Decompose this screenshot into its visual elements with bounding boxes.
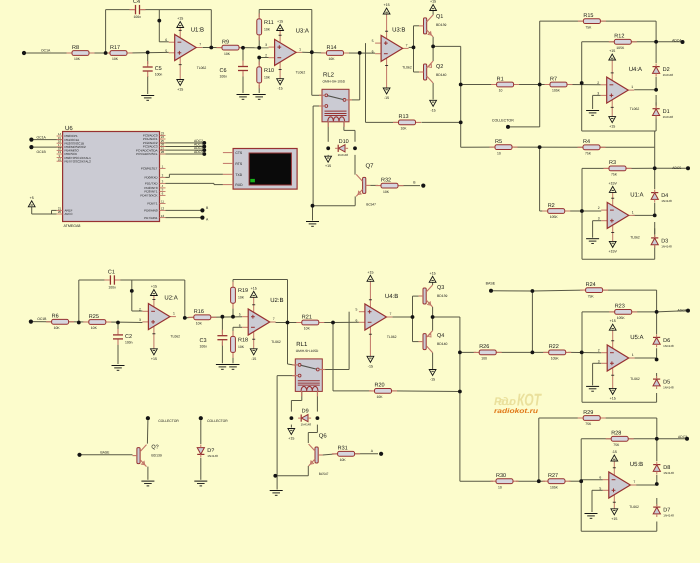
svg-text:10K: 10K — [401, 127, 408, 131]
svg-text:1N4148: 1N4148 — [663, 471, 674, 475]
svg-text:TL062: TL062 — [630, 235, 640, 239]
svg-text:105K: 105K — [550, 215, 559, 219]
svg-text:105K: 105K — [550, 485, 559, 489]
svg-text:100n: 100n — [108, 286, 116, 290]
svg-text:ADC5: ADC5 — [194, 150, 203, 154]
svg-text:+15: +15 — [151, 357, 157, 361]
svg-text:PB7/TOSC2/XTAL2: PB7/TOSC2/XTAL2 — [65, 159, 92, 163]
svg-text:+15: +15 — [384, 3, 390, 7]
svg-text:RTS: RTS — [235, 162, 242, 166]
svg-text:U2:A: U2:A — [164, 295, 177, 302]
svg-text:U2:B: U2:B — [270, 297, 283, 304]
svg-text:COLLECTOR: COLLECTOR — [207, 419, 228, 423]
svg-text:-15: -15 — [430, 108, 435, 112]
svg-text:5: 5 — [165, 49, 167, 53]
svg-text:10K: 10K — [238, 345, 245, 349]
svg-text:+15: +15 — [610, 319, 616, 323]
svg-text:КОТ: КОТ — [517, 391, 542, 410]
svg-text:U3:A: U3:A — [296, 27, 309, 34]
svg-text:Q4: Q4 — [437, 333, 444, 339]
svg-text:3: 3 — [597, 91, 599, 95]
svg-text:R16: R16 — [194, 309, 204, 315]
svg-text:5: 5 — [355, 308, 357, 312]
svg-text:R3: R3 — [609, 160, 616, 166]
svg-text:10K: 10K — [264, 75, 271, 79]
svg-text:TL062: TL062 — [402, 65, 412, 69]
svg-text:R26: R26 — [479, 344, 489, 350]
svg-text:BC547: BC547 — [319, 472, 329, 476]
svg-text:Q3: Q3 — [437, 285, 444, 291]
svg-text:75K: 75K — [611, 173, 618, 177]
svg-text:R10: R10 — [264, 68, 274, 74]
svg-text:10: 10 — [497, 151, 501, 155]
svg-text:R18: R18 — [238, 337, 248, 343]
svg-text:R32: R32 — [381, 177, 391, 183]
svg-text:10: 10 — [58, 157, 62, 161]
svg-text:PD7/AIN1: PD7/AIN1 — [144, 216, 158, 220]
svg-text:105K: 105K — [617, 316, 626, 320]
svg-text:10: 10 — [498, 485, 502, 489]
svg-text:R4: R4 — [583, 139, 590, 145]
svg-text:+5: +5 — [30, 196, 34, 200]
svg-text:OC1B: OC1B — [37, 150, 47, 154]
svg-text:5: 5 — [239, 313, 241, 317]
svg-text:R23: R23 — [615, 304, 625, 310]
svg-text:U1:B: U1:B — [191, 27, 204, 34]
svg-text:TL062: TL062 — [170, 335, 180, 339]
svg-text:7: 7 — [406, 43, 408, 47]
svg-text:1: 1 — [632, 210, 634, 214]
svg-text:10K: 10K — [54, 326, 61, 330]
svg-text:+15V: +15V — [608, 181, 617, 185]
svg-text:TL062: TL062 — [197, 66, 207, 70]
svg-text:C3: C3 — [200, 338, 207, 344]
svg-text:+15: +15 — [277, 20, 283, 24]
svg-text:U1:A: U1:A — [630, 191, 643, 198]
svg-text:R25: R25 — [89, 314, 99, 320]
svg-text:BASE: BASE — [100, 451, 110, 455]
svg-text:+15: +15 — [177, 88, 183, 92]
svg-text:PD1/TXD: PD1/TXD — [145, 182, 159, 186]
svg-text:-15: -15 — [612, 450, 617, 454]
svg-text:-15: -15 — [277, 87, 282, 91]
svg-text:PC6/RESET: PC6/RESET — [141, 167, 158, 171]
svg-text:100n: 100n — [155, 73, 163, 77]
svg-text:100n: 100n — [125, 340, 133, 344]
svg-text:R7: R7 — [550, 76, 557, 82]
svg-text:2: 2 — [265, 54, 267, 58]
svg-text:R14: R14 — [327, 45, 337, 51]
svg-text:+15: +15 — [611, 517, 617, 521]
svg-text:BD139: BD139 — [437, 294, 447, 298]
svg-text:R20: R20 — [375, 383, 385, 389]
svg-text:Q2: Q2 — [436, 64, 443, 70]
svg-text:1: 1 — [632, 353, 634, 357]
svg-text:OMIH-SH-105D: OMIH-SH-105D — [296, 349, 319, 353]
svg-text:75K: 75K — [613, 443, 620, 447]
svg-text:10K: 10K — [329, 57, 336, 61]
svg-text:R8: R8 — [72, 45, 79, 51]
svg-text:R12: R12 — [614, 34, 624, 40]
svg-text:105K: 105K — [552, 89, 561, 93]
svg-text:PD4/T0/XCK: PD4/T0/XCK — [140, 194, 157, 198]
svg-text:1N4148: 1N4148 — [661, 244, 672, 248]
svg-text:-15: -15 — [368, 364, 373, 368]
svg-text:2: 2 — [139, 307, 141, 311]
svg-text:radiokot.ru: radiokot.ru — [494, 408, 539, 415]
svg-text:R11: R11 — [264, 20, 274, 26]
svg-text:R6: R6 — [52, 314, 59, 320]
svg-text:R1: R1 — [497, 76, 504, 82]
svg-text:10K: 10K — [74, 57, 81, 61]
svg-text:Q6: Q6 — [319, 433, 328, 440]
svg-text:D10: D10 — [339, 139, 349, 145]
svg-text:5: 5 — [372, 39, 374, 43]
svg-text:PC5/ADC5/SCL: PC5/ADC5/SCL — [136, 152, 158, 156]
svg-text:7: 7 — [273, 317, 275, 321]
svg-text:BD139: BD139 — [436, 23, 446, 27]
svg-text:+15: +15 — [609, 49, 615, 53]
svg-text:Q7: Q7 — [366, 163, 375, 170]
svg-text:1N4148: 1N4148 — [661, 199, 672, 203]
svg-text:10K: 10K — [91, 326, 98, 330]
svg-text:+15: +15 — [430, 271, 436, 275]
svg-text:1: 1 — [173, 312, 175, 316]
svg-text:105K: 105K — [551, 357, 560, 361]
svg-text:U4:A: U4:A — [629, 66, 642, 73]
svg-text:1N4148: 1N4148 — [338, 153, 349, 157]
svg-text:10K: 10K — [196, 322, 203, 326]
svg-text:+15: +15 — [430, 0, 436, 4]
svg-text:-15: -15 — [384, 96, 389, 100]
svg-text:C5: C5 — [155, 66, 162, 72]
svg-text:6: 6 — [599, 476, 601, 480]
svg-text:75K: 75K — [585, 152, 592, 156]
svg-text:Q?: Q? — [151, 445, 158, 451]
svg-text:U6: U6 — [65, 125, 73, 132]
svg-text:20: 20 — [58, 210, 62, 214]
svg-text:1N4148: 1N4148 — [663, 344, 674, 348]
svg-text:RL1: RL1 — [296, 341, 308, 348]
svg-text:3: 3 — [265, 43, 267, 47]
svg-text:+15: +15 — [177, 17, 183, 21]
svg-text:Радио: Радио — [494, 396, 516, 408]
svg-text:100: 100 — [481, 357, 487, 361]
svg-text:100n: 100n — [134, 15, 142, 19]
svg-text:TL062: TL062 — [271, 340, 281, 344]
svg-text:7: 7 — [389, 312, 391, 316]
svg-text:RL2: RL2 — [323, 71, 335, 78]
svg-text:6: 6 — [355, 318, 357, 322]
svg-text:1N4148: 1N4148 — [663, 115, 674, 119]
svg-text:100n: 100n — [200, 345, 208, 349]
svg-text:RXD: RXD — [235, 183, 243, 187]
svg-text:OC1A: OC1A — [41, 49, 51, 53]
svg-text:+15: +15 — [251, 286, 257, 290]
svg-text:1N4148: 1N4148 — [301, 423, 312, 427]
svg-text:10K: 10K — [264, 27, 271, 31]
svg-text:TL062: TL062 — [296, 70, 306, 74]
svg-text:BASE: BASE — [486, 282, 496, 286]
svg-text:COLLECTOR: COLLECTOR — [492, 119, 514, 123]
svg-text:6: 6 — [165, 38, 167, 42]
svg-text:7: 7 — [199, 43, 201, 47]
svg-text:C4: C4 — [133, 0, 140, 5]
svg-text:PD0/RXD: PD0/RXD — [144, 176, 158, 180]
svg-text:U4:B: U4:B — [385, 293, 398, 300]
svg-text:BD140: BD140 — [436, 73, 446, 77]
svg-text:3: 3 — [598, 217, 600, 221]
svg-text:R21: R21 — [302, 314, 312, 320]
svg-text:R15: R15 — [583, 13, 593, 19]
svg-text:+15: +15 — [609, 125, 615, 129]
svg-text:6: 6 — [239, 323, 241, 327]
svg-text:R13: R13 — [399, 114, 409, 120]
svg-text:BD140: BD140 — [437, 342, 447, 346]
svg-text:100n: 100n — [220, 75, 228, 79]
svg-text:TXD: TXD — [235, 173, 242, 177]
svg-text:TL062: TL062 — [630, 107, 640, 111]
svg-text:75K: 75K — [585, 422, 592, 426]
svg-text:5: 5 — [599, 486, 601, 490]
svg-text:6: 6 — [372, 50, 374, 54]
svg-text:R29: R29 — [583, 410, 593, 416]
svg-text:+15: +15 — [610, 396, 616, 400]
svg-text:COLLECTOR: COLLECTOR — [158, 419, 179, 423]
svg-text:U5:A: U5:A — [630, 334, 643, 341]
svg-text:OC1A: OC1A — [37, 135, 47, 139]
svg-text:10K: 10K — [224, 52, 231, 56]
svg-text:ADC5: ADC5 — [672, 166, 681, 170]
svg-text:+15: +15 — [325, 164, 331, 168]
svg-text:1N4148: 1N4148 — [663, 514, 674, 518]
svg-text:7: 7 — [633, 480, 635, 484]
svg-text:-15: -15 — [251, 357, 256, 361]
svg-text:BC547: BC547 — [366, 202, 376, 206]
svg-text:R22: R22 — [549, 344, 559, 350]
svg-text:1: 1 — [299, 47, 301, 51]
svg-text:ADC4: ADC4 — [672, 38, 681, 42]
svg-text:D9: D9 — [302, 409, 309, 415]
svg-text:R5: R5 — [495, 139, 502, 145]
svg-text:1N4148: 1N4148 — [207, 454, 218, 458]
svg-text:TL062: TL062 — [387, 335, 397, 339]
svg-text:R31: R31 — [338, 446, 348, 452]
svg-text:AVCC: AVCC — [65, 212, 74, 216]
svg-text:C2: C2 — [125, 334, 132, 340]
svg-text:C1: C1 — [108, 270, 115, 276]
svg-text:13: 13 — [161, 214, 165, 218]
svg-text:CTS: CTS — [235, 151, 243, 155]
svg-text:10K: 10K — [304, 327, 311, 331]
svg-text:R2: R2 — [548, 203, 555, 209]
svg-text:BD139: BD139 — [151, 454, 161, 458]
svg-text:+15: +15 — [151, 285, 157, 289]
svg-text:2: 2 — [598, 349, 600, 353]
svg-text:R28: R28 — [611, 431, 621, 437]
svg-text:PD6/AIN0: PD6/AIN0 — [144, 209, 158, 213]
svg-text:10K: 10K — [377, 395, 384, 399]
svg-text:R17: R17 — [110, 45, 120, 51]
svg-text:75K: 75K — [585, 25, 592, 29]
svg-text:12: 12 — [161, 207, 165, 211]
svg-text:10K: 10K — [238, 296, 245, 300]
svg-text:3: 3 — [139, 318, 141, 322]
svg-text:OC1B: OC1B — [37, 317, 47, 321]
svg-text:1N4148: 1N4148 — [663, 386, 674, 390]
svg-text:R19: R19 — [238, 288, 248, 294]
svg-text:U3:B: U3:B — [392, 26, 405, 33]
svg-text:2: 2 — [598, 206, 600, 210]
svg-text:2: 2 — [597, 81, 599, 85]
svg-text:10K: 10K — [340, 458, 347, 462]
svg-text:+15: +15 — [367, 270, 373, 274]
svg-text:3: 3 — [598, 359, 600, 363]
svg-text:10: 10 — [499, 89, 503, 93]
svg-text:10K: 10K — [383, 190, 390, 194]
svg-text:Q1: Q1 — [436, 14, 443, 20]
svg-text:OMIH-SH-105D: OMIH-SH-105D — [323, 79, 346, 83]
svg-text:1N4148: 1N4148 — [663, 73, 674, 77]
svg-text:105K: 105K — [616, 46, 625, 50]
svg-text:PD5/T1: PD5/T1 — [147, 202, 158, 206]
svg-text:R27: R27 — [548, 473, 558, 479]
svg-text:ADC2: ADC2 — [677, 308, 686, 312]
svg-text:75K: 75K — [588, 294, 595, 298]
svg-text:11: 11 — [161, 200, 164, 204]
svg-text:C6: C6 — [220, 68, 227, 74]
svg-text:R30: R30 — [496, 473, 506, 479]
svg-text:R9: R9 — [222, 39, 229, 45]
svg-text:U5:B: U5:B — [630, 461, 643, 468]
svg-text:R24: R24 — [586, 282, 596, 288]
svg-text:ATMEGA8: ATMEGA8 — [64, 224, 81, 228]
svg-text:+15V: +15V — [608, 249, 617, 253]
svg-text:+15: +15 — [288, 437, 294, 441]
svg-text:1: 1 — [631, 85, 633, 89]
svg-text:TL062: TL062 — [630, 377, 640, 381]
svg-text:28: 28 — [161, 150, 165, 154]
svg-text:TL062: TL062 — [629, 505, 639, 509]
svg-text:10K: 10K — [112, 57, 119, 61]
svg-text:-15: -15 — [430, 378, 435, 382]
